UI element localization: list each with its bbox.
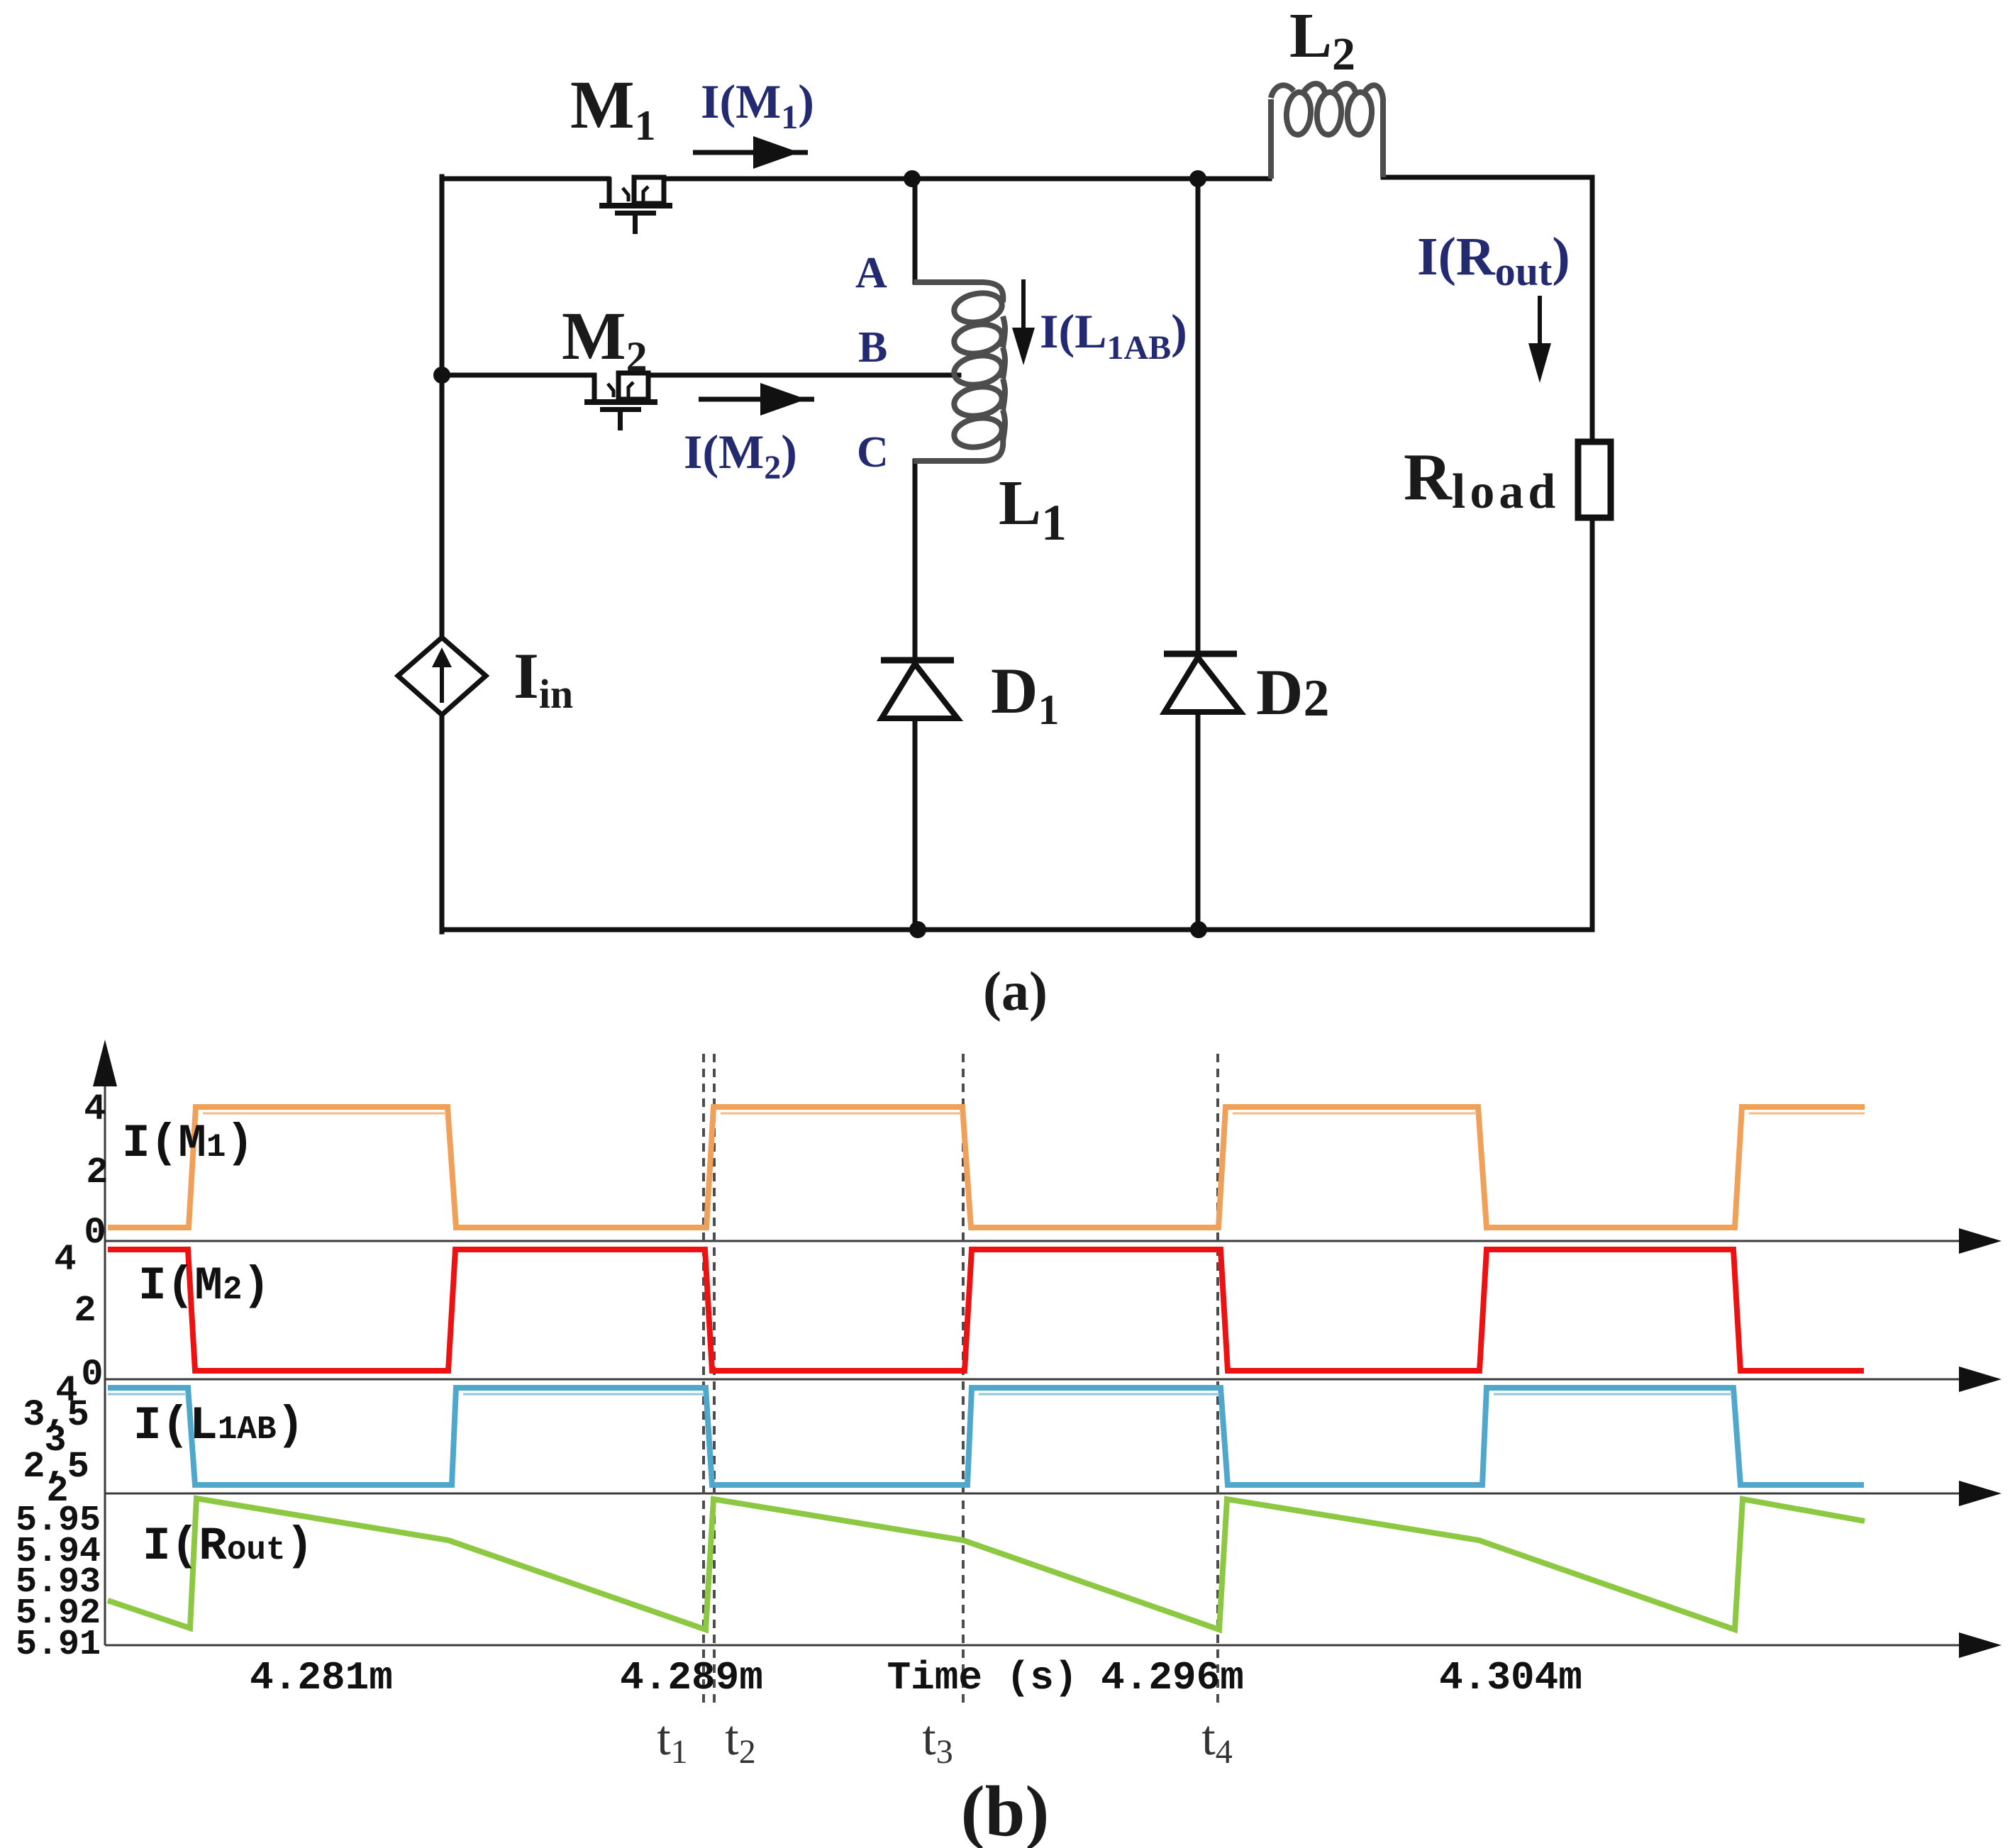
current arrow I(M1) bbox=[693, 136, 808, 169]
wire Rload to bottom rail bbox=[1590, 518, 1595, 930]
wire left rail lower bbox=[440, 716, 445, 932]
axis x4 bbox=[105, 1632, 2001, 1658]
transistor M1 bbox=[599, 177, 672, 234]
dashed marker t1 bbox=[702, 1054, 705, 1705]
current source Iin bbox=[398, 638, 486, 715]
svg-text:4.304m: 4.304m bbox=[1439, 1655, 1582, 1701]
waveform I(L1AB) echo lines bbox=[108, 1393, 1732, 1396]
node junction dot A-branch top bbox=[904, 170, 921, 187]
svg-text:I(M2): I(M2) bbox=[138, 1259, 270, 1313]
waveform I(M2) red bbox=[108, 1249, 1864, 1371]
wire M2 row left bbox=[442, 373, 594, 378]
wire bottom rail bbox=[442, 928, 1592, 933]
svg-text:4.281m: 4.281m bbox=[250, 1655, 393, 1701]
waveform I(M1) echo lines bbox=[203, 1113, 1865, 1115]
node junction dot D2 bottom bbox=[1190, 921, 1207, 938]
svg-text:0: 0 bbox=[81, 1354, 103, 1396]
svg-text:(b): (b) bbox=[961, 1771, 1050, 1848]
axis x3 bbox=[105, 1481, 2001, 1506]
transistor M2 bbox=[584, 373, 657, 430]
wire M2 row right bbox=[648, 373, 959, 378]
svg-text:4.296m: 4.296m bbox=[1101, 1655, 1244, 1701]
svg-text:5.91: 5.91 bbox=[16, 1625, 101, 1665]
svg-text:4: 4 bbox=[84, 1089, 106, 1130]
svg-text:2: 2 bbox=[86, 1152, 108, 1193]
node junction dot left rail / M2 bbox=[433, 367, 450, 384]
axis x1 bbox=[105, 1228, 2001, 1254]
diode D2 bbox=[1164, 654, 1240, 712]
wire top rail right segment bbox=[664, 177, 1270, 182]
dashed marker t2 bbox=[713, 1054, 716, 1705]
waveform I(Rout) green bbox=[108, 1498, 1865, 1630]
dashed marker t4 bbox=[1216, 1054, 1219, 1705]
node junction dot D2 top bbox=[1189, 170, 1206, 187]
wire left rail upper bbox=[440, 177, 445, 636]
svg-text:4.289m: 4.289m bbox=[620, 1655, 763, 1701]
svg-text:A: A bbox=[855, 249, 887, 297]
wire D1 to bottom rail bbox=[913, 720, 918, 930]
axis x2 bbox=[105, 1366, 2001, 1392]
wire L1 bottom to D1 bbox=[913, 461, 918, 655]
waveform I(L1AB) blue bbox=[108, 1388, 1864, 1485]
waveform I(M1) orange bbox=[108, 1107, 1865, 1228]
svg-text:B: B bbox=[858, 323, 887, 372]
current arrow I(Rout) bbox=[1528, 296, 1551, 383]
resistor Rload bbox=[1578, 442, 1611, 518]
current arrow I(L1AB) bbox=[1012, 279, 1035, 365]
svg-text:0: 0 bbox=[84, 1212, 106, 1254]
svg-text:(a): (a) bbox=[983, 960, 1048, 1022]
svg-text:4: 4 bbox=[54, 1239, 76, 1281]
svg-text:Time (s): Time (s) bbox=[887, 1655, 1078, 1701]
inductor L1 bbox=[914, 282, 1005, 461]
node junction dot D1 bottom bbox=[909, 921, 926, 938]
diode D1 bbox=[881, 660, 957, 718]
svg-text:I(M1): I(M1) bbox=[122, 1117, 254, 1170]
inductor L2 bbox=[1271, 84, 1383, 179]
svg-text:2: 2 bbox=[74, 1290, 96, 1332]
dashed marker t3 bbox=[962, 1054, 965, 1705]
wire node A vertical bbox=[913, 179, 918, 282]
wire top rail left segment bbox=[442, 177, 609, 182]
current arrow I(M2) bbox=[699, 383, 814, 416]
wire L2 right lead to Rload bbox=[1383, 119, 1592, 442]
svg-text:C: C bbox=[857, 428, 889, 477]
axis y bbox=[93, 1040, 117, 1645]
wire D2 branch upper bbox=[1196, 179, 1201, 648]
wire D2 to bottom rail bbox=[1196, 713, 1201, 930]
